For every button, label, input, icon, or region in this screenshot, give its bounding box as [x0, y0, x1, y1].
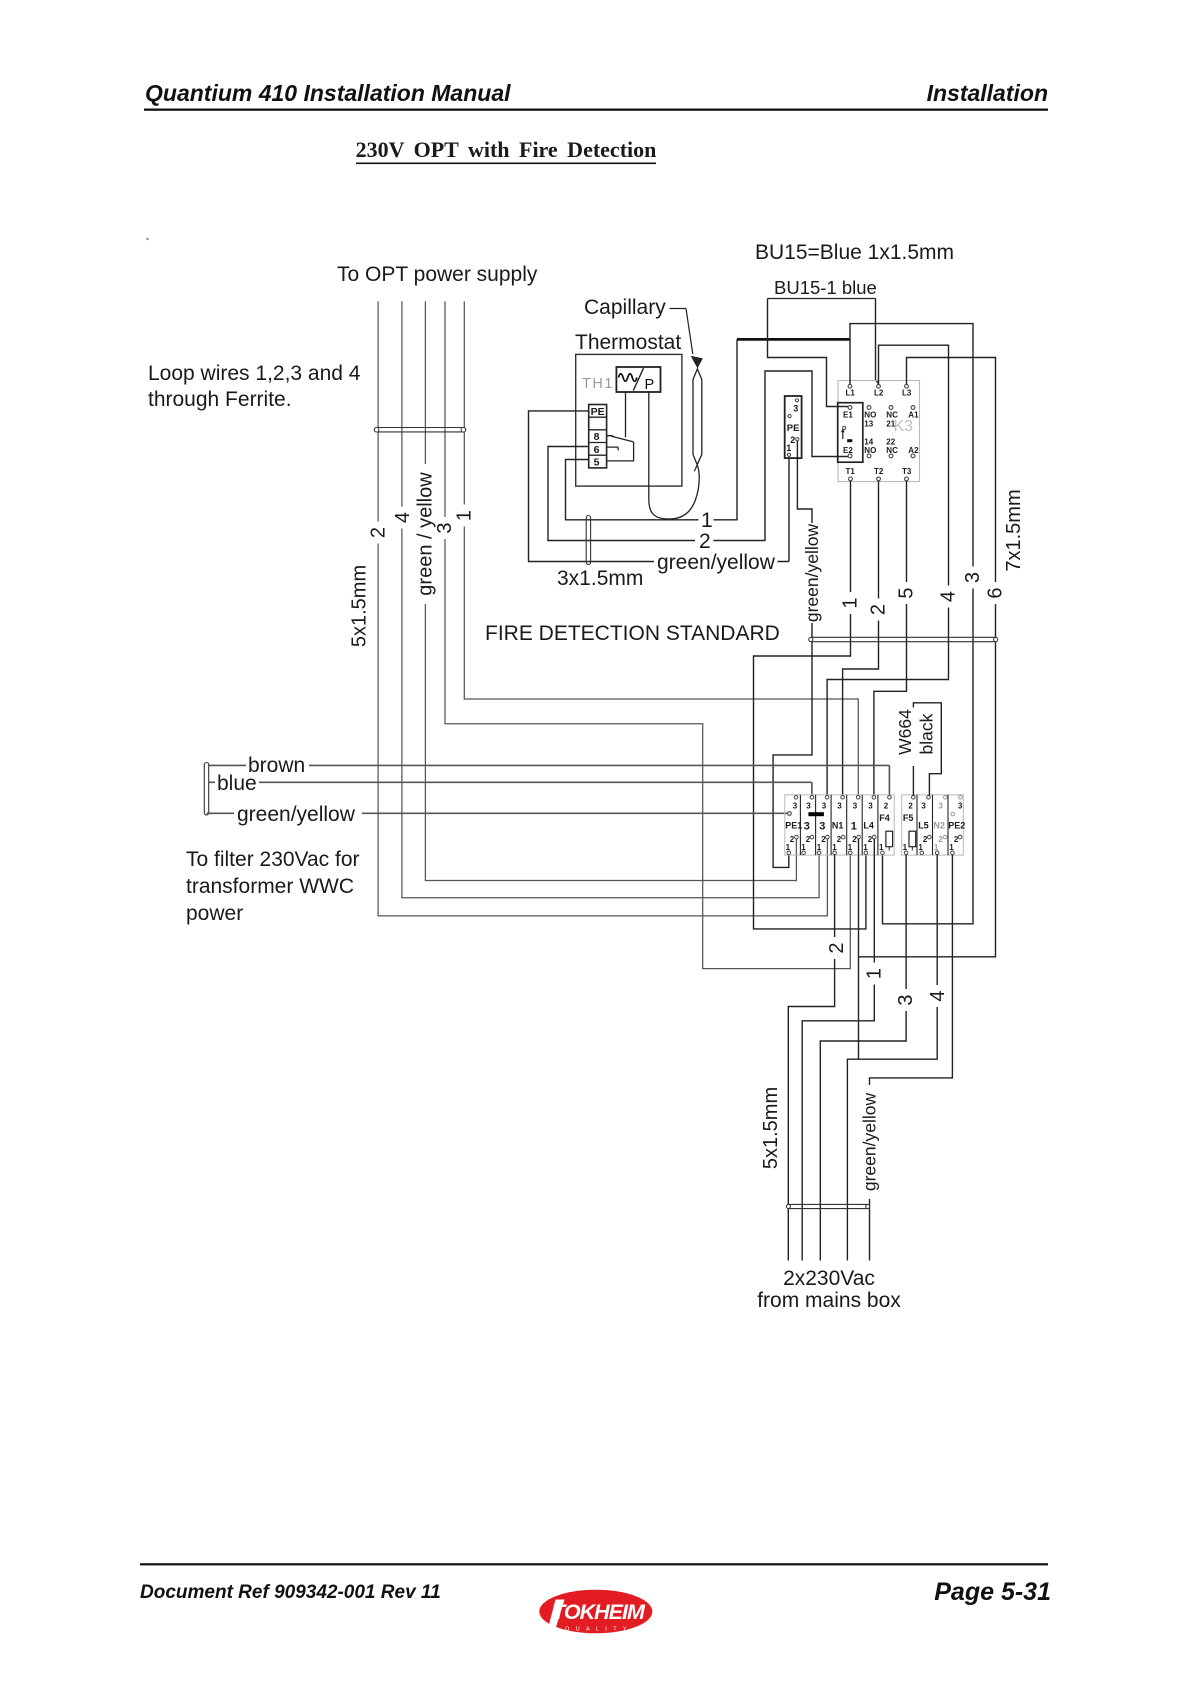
wire F5 pin1 down to mains (wire 3) [820, 855, 906, 1261]
svg-text:L4: L4 [863, 821, 874, 831]
svg-text:1: 1 [817, 843, 822, 852]
svg-text:T2: T2 [874, 467, 884, 476]
svg-text:4: 4 [927, 990, 949, 1001]
svg-text:A1: A1 [908, 410, 919, 419]
wire label 3 [438, 517, 453, 539]
svg-text:2: 2 [923, 835, 928, 844]
contactor K3 outer body [838, 381, 920, 482]
svg-text:L1: L1 [846, 388, 856, 397]
contactor K3 coil module box [838, 403, 863, 463]
svg-text:Q U A L I T Y: Q U A L I T Y [565, 1627, 629, 1633]
svg-text:3: 3 [895, 994, 917, 1005]
svg-text:2: 2 [821, 835, 826, 844]
svg-text:1: 1 [786, 443, 791, 453]
wire labels 1 2 5 4 3 6 above bundle [843, 592, 858, 614]
svg-text:21: 21 [886, 419, 895, 428]
PE1 left pin circle [788, 812, 792, 816]
stray page dot [146, 238, 148, 240]
svg-text:2: 2 [852, 835, 857, 844]
wire 1 continuation up to thick feed [714, 339, 738, 519]
svg-text:3: 3 [434, 522, 456, 533]
svg-text:transformer WWC: transformer WWC [186, 875, 354, 898]
wire W664 bracket to L5 top [913, 703, 941, 796]
svg-text:BU15=Blue 1x1.5mm: BU15=Blue 1x1.5mm [755, 241, 954, 264]
svg-text:2x230Vac: 2x230Vac [783, 1267, 875, 1290]
svg-text:2: 2 [790, 835, 795, 844]
svg-text:1: 1 [832, 843, 837, 852]
svg-text:1: 1 [949, 843, 954, 852]
wire label 2 [371, 522, 386, 544]
svg-text:3: 3 [962, 572, 984, 583]
svg-text:8: 8 [594, 431, 600, 443]
wire thermostat 5 to L1 (wire 1) [566, 460, 699, 520]
svg-text:A2: A2 [908, 446, 919, 455]
svg-text:4: 4 [938, 591, 960, 602]
svg-text:W664: W664 [895, 709, 915, 755]
svg-text:black: black [917, 713, 937, 754]
svg-text:1: 1 [863, 843, 868, 852]
ferrite bead on OPT cable [374, 428, 465, 432]
wire L4 pin2 down to mains (wire 1) [802, 839, 874, 1261]
svg-text:2: 2 [367, 527, 389, 538]
svg-text:K3: K3 [894, 418, 914, 435]
svg-text:2: 2 [954, 835, 959, 844]
svg-text:Page 5-31: Page 5-31 [934, 1578, 1051, 1606]
thermostat terminal strip [589, 405, 607, 468]
svg-text:FIRE DETECTION STANDARD: FIRE DETECTION STANDARD [485, 622, 780, 645]
svg-text:2: 2 [884, 801, 889, 810]
svg-text:2: 2 [826, 942, 848, 953]
capillary pointer diagonal [686, 309, 693, 355]
svg-text:3: 3 [793, 801, 798, 810]
svg-text:T3: T3 [902, 467, 912, 476]
capillary pointer arrowhead [691, 356, 703, 369]
svg-text:E1: E1 [843, 410, 853, 419]
svg-text:NO: NO [864, 446, 876, 455]
svg-text:Document Ref 909342-001 Rev 11: Document Ref 909342-001 Rev 11 [140, 1582, 441, 1603]
svg-text:blue: blue [217, 772, 257, 795]
svg-text:3: 3 [804, 821, 810, 833]
svg-text:13: 13 [864, 419, 873, 428]
svg-text:Thermostat: Thermostat [575, 331, 681, 354]
svg-text:L3: L3 [902, 388, 912, 397]
svg-text:3: 3 [921, 801, 926, 810]
wire net 1: T1 down to L4 pin1 [754, 481, 866, 929]
wire OPT green/yellow (to PE1 pin2) [425, 301, 796, 880]
svg-text:PE2: PE2 [948, 821, 965, 831]
switch fixed path to terminal 5 [607, 442, 634, 461]
svg-text:green/yellow: green/yellow [237, 803, 356, 826]
jumper bar between terminals 3 and 3 [808, 812, 824, 816]
svg-text:3: 3 [822, 801, 827, 810]
wire brown to F4 top [209, 765, 890, 795]
svg-text:5x1.5mm: 5x1.5mm [760, 1087, 782, 1169]
svg-text:7x1.5mm: 7x1.5mm [1003, 489, 1025, 571]
svg-text:L2: L2 [874, 388, 884, 397]
wire sensor to switch [625, 392, 627, 437]
terminal block 1 body [785, 795, 894, 855]
contactor terminal circles row E1/NO/NC/A1 [848, 406, 852, 410]
svg-text:3: 3 [806, 801, 811, 810]
svg-text:1: 1 [879, 843, 884, 852]
svg-text:3: 3 [868, 801, 873, 810]
svg-text:2: 2 [938, 835, 943, 844]
wire label 1 [457, 505, 472, 527]
switch contact at terminal 6 [607, 447, 619, 450]
terminal bottom pin circles [787, 851, 791, 855]
wire green/yellow dash to PE terminal pin1 [778, 456, 790, 561]
wire thermostat PE to green/yellow [529, 411, 655, 562]
wire net 3: L1 up over to F4 pin1 [850, 324, 973, 924]
wire OPT loop 1 (to terminal 1 block pin3) [464, 301, 858, 795]
svg-text:1: 1 [851, 821, 857, 833]
wire OPT loop 3 (to terminal 1 block pin1) [445, 301, 850, 968]
cable marker left (3 wires) [204, 763, 208, 816]
mains wire labels [830, 937, 845, 959]
svg-text:power: power [186, 902, 243, 925]
svg-text:2: 2 [868, 835, 873, 844]
svg-text:PE1: PE1 [785, 821, 802, 831]
svg-text:green/yellow: green/yellow [802, 524, 822, 623]
wire 2 continuation to E2 [714, 371, 849, 541]
wire net 6: L3 up over and down [859, 358, 996, 957]
svg-text:P: P [645, 377, 655, 393]
svg-text:To filter 230Vac for: To filter 230Vac for [186, 848, 360, 871]
svg-text:2: 2 [908, 801, 913, 810]
svg-text:Loop wires 1,2,3 and 4: Loop wires 1,2,3 and 4 [148, 362, 361, 385]
svg-text:T1: T1 [846, 467, 856, 476]
svg-text:through Ferrite.: through Ferrite. [148, 388, 292, 411]
contactor terminal circles row L [848, 384, 852, 388]
svg-text:2: 2 [806, 835, 811, 844]
capillary pointer dash [670, 308, 687, 310]
switch blade [612, 436, 634, 442]
terminal block 2 body [902, 795, 964, 855]
Tokheim logo [539, 1590, 652, 1637]
wire N2 pin1 down to mains (wire 4) [847, 855, 937, 1261]
svg-text:1: 1 [786, 843, 791, 852]
coil actuator symbol [843, 426, 846, 429]
wire green/yellow to PE1 left pin [207, 812, 788, 814]
svg-text:6: 6 [985, 587, 1007, 598]
wire PE block pin2 green/yellow down to PE1 pin1 [773, 441, 812, 868]
svg-text:To OPT power supply: To OPT power supply [337, 263, 538, 286]
svg-text:3: 3 [958, 801, 963, 810]
cable bundle bar 5x1.5mm mains [787, 1204, 870, 1208]
capillary bulb outline [693, 369, 702, 465]
svg-text:2: 2 [699, 530, 711, 553]
svg-text:5x1.5mm: 5x1.5mm [349, 565, 371, 647]
svg-text:NC: NC [886, 446, 898, 455]
svg-text:from mains box: from mains box [757, 1289, 901, 1312]
svg-text:1: 1 [903, 843, 908, 852]
svg-text:TOKHEIM: TOKHEIM [552, 1600, 646, 1624]
svg-text:F4: F4 [879, 813, 890, 823]
svg-text:N1: N1 [832, 821, 844, 831]
svg-text:BU15-1 blue: BU15-1 blue [774, 277, 877, 298]
wire blue to terminal 3 top [209, 782, 812, 795]
contactor terminal circles row E2/NO/NC/A2 [848, 454, 852, 458]
thick feed wire to L1 [737, 338, 850, 341]
svg-text:1: 1 [801, 843, 806, 852]
terminal top pin circles [794, 796, 798, 800]
svg-text:5: 5 [896, 587, 918, 598]
capillary tube U-bend [649, 465, 699, 519]
svg-text:3: 3 [837, 801, 842, 810]
wire label 4 [396, 507, 411, 529]
label green/yellow rotated (mains) [861, 1085, 878, 1199]
thermostat TH1 outline box [576, 354, 682, 486]
terminal side pin circles [795, 835, 799, 839]
footer rule [140, 1563, 1048, 1565]
capillary bulb lower tail [694, 465, 697, 471]
wire N1 pin1 down to mains (wire 2) [788, 855, 834, 1261]
cable bundle bar 7x1.5mm [809, 637, 998, 641]
svg-text:1: 1 [934, 843, 939, 852]
svg-text:NC: NC [886, 410, 898, 419]
svg-text:1: 1 [864, 968, 886, 979]
svg-text:4: 4 [392, 512, 414, 523]
svg-text:1: 1 [453, 510, 475, 521]
svg-text:3x1.5mm: 3x1.5mm [557, 567, 643, 590]
svg-text:PE: PE [787, 423, 800, 434]
svg-text:Capillary: Capillary [584, 296, 666, 319]
svg-text:green/yellow: green/yellow [657, 551, 776, 574]
wire label green / yellow [418, 464, 433, 604]
svg-text:2: 2 [837, 835, 842, 844]
svg-text:green/yellow: green/yellow [860, 1093, 880, 1192]
wire OPT loop 4 (to terminal 3 block pin1) [402, 301, 819, 897]
wire PE2 pin1 down to mains (green/yellow) [870, 855, 953, 1261]
wire BU15-1 blue left leg to E1 [768, 299, 849, 407]
svg-text:L5: L5 [918, 821, 929, 831]
svg-text:3: 3 [793, 404, 798, 414]
wire net 4: L2 up over to terminal 3 top [827, 345, 948, 795]
wire OPT loop 2 (to terminal 3 block pin2) [378, 301, 827, 916]
svg-text:1: 1 [848, 843, 853, 852]
svg-text:2: 2 [868, 604, 890, 615]
PE terminal block near contactor [785, 396, 802, 458]
svg-text:N2: N2 [933, 821, 945, 831]
svg-text:3: 3 [938, 801, 943, 810]
svg-text:Installation: Installation [927, 80, 1048, 106]
header rule [144, 109, 1048, 111]
wire net 5: T3 down to L4 top [874, 481, 907, 796]
label green/yellow rotated (PE block wire) [803, 523, 820, 623]
svg-text:TH1: TH1 [582, 376, 614, 392]
svg-text:230V OPT with Fire Detection: 230V OPT with Fire Detection [356, 137, 657, 162]
svg-text:14: 14 [864, 437, 873, 446]
svg-text:1: 1 [701, 509, 713, 532]
wire thermostat 6 to contact E2 (wire 2) [548, 447, 695, 541]
svg-text:NO: NO [864, 410, 876, 419]
cable marker 3x1.5mm [586, 516, 590, 565]
svg-text:E2: E2 [843, 446, 853, 455]
sensor resistive squiggle [619, 374, 637, 382]
svg-text:5: 5 [594, 457, 600, 469]
wire net 2: T2 down to N1 top [843, 481, 879, 796]
svg-text:3: 3 [853, 801, 858, 810]
svg-text:6: 6 [594, 444, 600, 456]
svg-text:Quantium 410 Installation Manu: Quantium 410 Installation Manual [145, 80, 511, 106]
svg-text:1: 1 [840, 597, 862, 608]
svg-text:F5: F5 [903, 813, 914, 823]
svg-text:22: 22 [886, 437, 895, 446]
svg-text:1: 1 [918, 843, 923, 852]
sensor element box [616, 367, 660, 392]
contactor terminal circles row T [849, 477, 853, 481]
svg-text:3: 3 [819, 821, 825, 833]
sensor slash [633, 368, 643, 390]
switch pivot from terminal 8 [607, 436, 614, 437]
wire sensor P lead down [648, 392, 650, 500]
wire BU15-1 blue right leg to L2 [876, 299, 879, 384]
wire W664 stub to F5 top [912, 766, 914, 796]
svg-text:PE: PE [591, 406, 605, 418]
wire terminal-1 pin2 down (joins net 6) [858, 839, 860, 1059]
